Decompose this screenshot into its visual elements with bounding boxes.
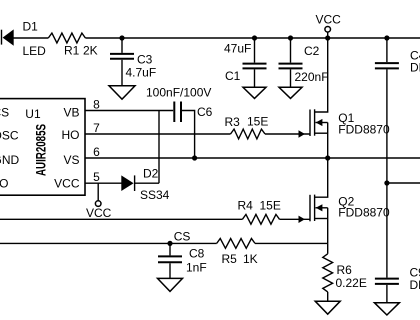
svg-text:47uF: 47uF <box>224 41 251 55</box>
wire top rail <box>85 37 420 39</box>
svg-text:4.7uF: 4.7uF <box>126 66 157 80</box>
ground C9 <box>374 303 399 315</box>
wire top rail left <box>14 37 49 39</box>
transistor Q1 <box>310 38 390 158</box>
capacitor C2 <box>279 38 329 87</box>
svg-text:SS34: SS34 <box>140 188 170 202</box>
svg-text:5: 5 <box>93 170 100 184</box>
svg-text:6: 6 <box>93 145 100 159</box>
svg-text:220nF: 220nF <box>295 70 329 84</box>
capacitor C6 <box>146 86 213 123</box>
resistor R4 <box>238 198 281 224</box>
svg-text:FDD8870: FDD8870 <box>338 122 390 136</box>
svg-text:R5: R5 <box>222 252 238 266</box>
svg-text:R4: R4 <box>238 198 254 212</box>
resistor R1 <box>48 33 97 57</box>
IC U1 AUIR2085S <box>0 99 85 196</box>
svg-text:HO: HO <box>62 128 80 142</box>
svg-text:DN: DN <box>410 60 420 74</box>
svg-text:AUIR2085S: AUIR2085S <box>33 124 49 176</box>
node VCC rail <box>325 35 330 40</box>
svg-text:CS: CS <box>174 230 191 244</box>
ground C3 <box>109 86 135 99</box>
wire pin 6 VS line <box>85 157 420 159</box>
svg-text:7: 7 <box>93 121 100 135</box>
svg-text:1K: 1K <box>243 252 258 266</box>
wire R3 to Q1 gate <box>265 133 310 135</box>
wire CS line left <box>0 242 217 244</box>
svg-text:R3: R3 <box>225 115 241 129</box>
svg-text:C2: C2 <box>304 44 320 58</box>
power VCC top <box>316 13 342 39</box>
svg-text:VCC: VCC <box>54 177 80 191</box>
svg-text:R1: R1 <box>64 44 80 58</box>
svg-text:D1: D1 <box>23 20 39 34</box>
svg-text:15E: 15E <box>247 115 268 129</box>
svg-text:D2: D2 <box>143 167 159 181</box>
node Q1 source VS <box>325 155 330 160</box>
wire pin 5 VCC <box>85 182 122 184</box>
capacitor C4 <box>375 38 420 74</box>
arrowhead Q1 gate <box>299 130 305 137</box>
svg-text:LO: LO <box>0 176 9 190</box>
capacitor C8 <box>158 243 207 278</box>
wire R4 line <box>0 218 242 220</box>
svg-text:DN: DN <box>410 278 420 292</box>
svg-text:C1: C1 <box>225 69 241 83</box>
svg-text:C3: C3 <box>137 53 153 67</box>
ground C8 <box>158 278 183 291</box>
svg-text:GND: GND <box>0 153 20 167</box>
svg-text:100nF/100V: 100nF/100V <box>146 86 211 100</box>
svg-text:R6: R6 <box>337 263 353 277</box>
svg-text:OSC: OSC <box>0 128 19 142</box>
svg-text:VS: VS <box>63 153 79 167</box>
wire D2 to VB <box>158 111 160 184</box>
resistor R5 <box>217 239 258 267</box>
svg-text:C6: C6 <box>197 105 213 119</box>
wire snubber mid right <box>387 182 420 184</box>
node C1 tap <box>252 35 257 40</box>
wire snubber vertical <box>386 69 388 277</box>
capacitor C3 <box>110 38 156 86</box>
ground C2 <box>279 87 302 98</box>
node C2 tap <box>288 35 293 40</box>
resistor R6 <box>323 243 367 301</box>
resistor R3 <box>225 115 269 139</box>
ground R6 <box>315 301 340 314</box>
svg-text:FDD8870: FDD8870 <box>338 205 390 219</box>
diode D2 <box>121 167 169 203</box>
svg-text:15E: 15E <box>260 198 281 212</box>
node snubber top tap <box>384 35 389 40</box>
svg-text:0.22E: 0.22E <box>336 276 367 290</box>
wire R4 to Q2 gate <box>280 218 310 220</box>
svg-text:8: 8 <box>93 98 100 112</box>
svg-text:2K: 2K <box>83 44 98 58</box>
wire C6 to VS <box>182 111 195 159</box>
svg-text:CS: CS <box>0 105 9 119</box>
svg-text:LED: LED <box>23 44 47 58</box>
svg-text:VCC: VCC <box>86 206 112 220</box>
node C3 tap <box>119 35 124 40</box>
node CS <box>167 241 172 246</box>
capacitor C9 <box>375 266 420 303</box>
wire CS line right <box>255 242 328 244</box>
diode D1 <box>2 20 47 58</box>
wire pin 8 VB <box>85 110 173 112</box>
arrowhead Q2 gate <box>299 216 305 223</box>
wire pin 7 HO <box>85 133 231 135</box>
ground C1 <box>243 87 266 98</box>
svg-text:VCC: VCC <box>316 13 342 27</box>
node C6 VS junction <box>192 155 197 160</box>
svg-text:C8: C8 <box>189 247 205 261</box>
svg-text:1nF: 1nF <box>186 261 207 275</box>
node snubber mid <box>384 180 389 185</box>
svg-text:VB: VB <box>63 106 79 120</box>
wire D2 cathode <box>135 182 159 184</box>
svg-text:U1: U1 <box>25 107 41 121</box>
power VCC pin5 <box>86 183 112 220</box>
transistor Q2 <box>310 158 390 243</box>
capacitor C1 <box>224 38 267 87</box>
